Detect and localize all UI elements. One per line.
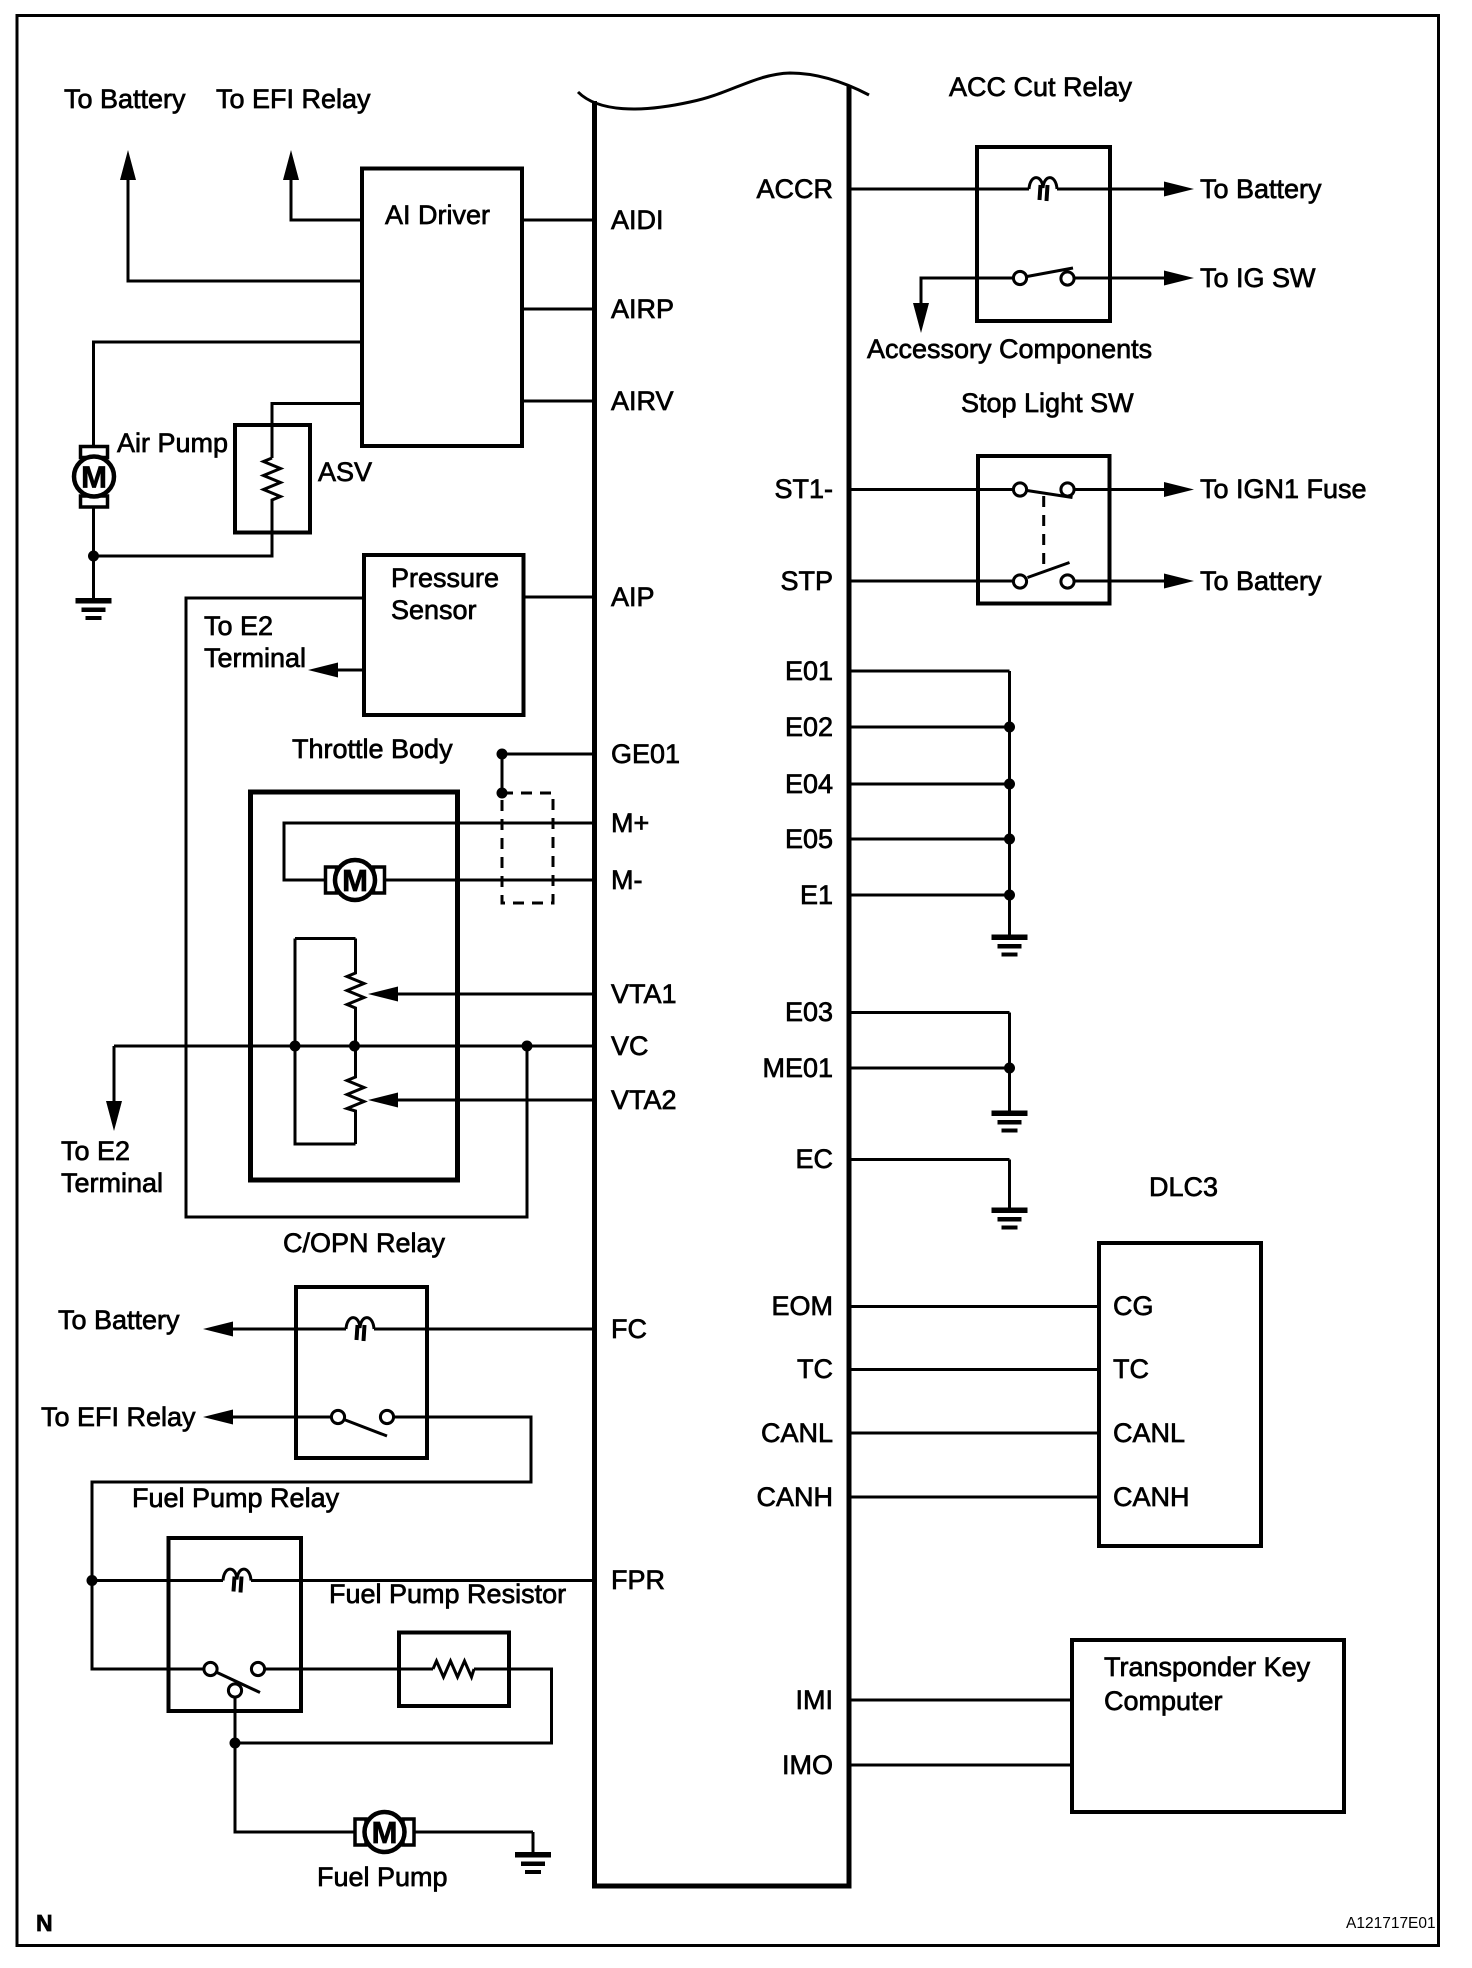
svg-text:To Battery: To Battery (1200, 566, 1322, 596)
dashed noise-suppressor box (502, 793, 553, 903)
svg-text:ASV: ASV (318, 457, 372, 487)
wire EC (852, 1160, 1010, 1210)
svg-text:AIRV: AIRV (611, 386, 674, 416)
svg-text:To EFI Relay: To EFI Relay (216, 84, 371, 114)
relay switch (C/OPN) (331, 1410, 393, 1436)
wire: resistor return with junction dot (230, 1669, 552, 1749)
svg-text:ACCR: ACCR (756, 174, 833, 204)
svg-text:CG: CG (1113, 1291, 1154, 1321)
wire: air pump to ground junction (94, 508, 273, 556)
ground (ME01) (992, 1111, 1028, 1133)
svg-text:To Battery: To Battery (58, 1305, 180, 1335)
wire: AI Driver to EFI relay (291, 178, 362, 220)
wire ACCR (852, 188, 1165, 191)
svg-text:VC: VC (611, 1031, 649, 1061)
svg-text:Fuel Pump: Fuel Pump (317, 1862, 448, 1892)
ground (EC) (992, 1208, 1028, 1230)
svg-text:ST1-: ST1- (774, 474, 833, 504)
arrow/label: To Battery (C/OPN) (58, 1305, 233, 1337)
relay coil (fuel pump) (223, 1569, 251, 1592)
svg-text:E02: E02 (785, 712, 833, 742)
svg-text:FC: FC (611, 1314, 647, 1344)
svg-text:AIDI: AIDI (611, 205, 664, 235)
arrow/label: To EFI Relay (C/OPN) (41, 1402, 331, 1432)
arrow/label: To Battery (ACC) (1164, 174, 1322, 204)
svg-text:To Battery: To Battery (1200, 174, 1322, 204)
DLC3 connector box (1099, 1243, 1261, 1546)
svg-text:Accessory Components: Accessory Components (867, 334, 1152, 364)
stop light switch box (978, 456, 1110, 604)
wire VC with junction dots (114, 1041, 597, 1052)
svg-text:E01: E01 (785, 656, 833, 686)
arrow: to E2 terminal (pressure sensor) (308, 663, 364, 678)
ACC cut relay box (977, 147, 1110, 321)
svg-text:VTA1: VTA1 (611, 979, 677, 1009)
wire STP (852, 580, 1014, 583)
svg-text:TC: TC (797, 1354, 833, 1384)
wire VTA2 with arrow (368, 1093, 597, 1108)
svg-text:Computer: Computer (1104, 1686, 1223, 1716)
throttle motor inner box (251, 792, 458, 1180)
svg-text:Terminal: Terminal (204, 643, 306, 673)
throttle position sensor potentiometer (295, 939, 364, 1145)
ground bus E01-E1 with junction dots (1004, 671, 1015, 936)
arrow/label: To IG SW (1074, 263, 1316, 293)
wire: AI Driver to battery (128, 178, 362, 281)
svg-text:CANL: CANL (1113, 1418, 1185, 1448)
svg-text:IMO: IMO (782, 1750, 833, 1780)
svg-text:Fuel Pump Resistor: Fuel Pump Resistor (329, 1579, 566, 1609)
arrow/label: To IGN1 Fuse (1074, 474, 1367, 504)
svg-text:Fuel Pump Relay: Fuel Pump Relay (132, 1483, 340, 1513)
svg-text:To IGN1 Fuse: To IGN1 Fuse (1200, 474, 1367, 504)
svg-text:Pressure: Pressure (391, 563, 499, 593)
wire FC (232, 1328, 597, 1331)
wire E02 (852, 726, 1010, 729)
svg-text:Terminal: Terminal (61, 1168, 163, 1198)
wire CANH (852, 1496, 1100, 1499)
svg-text:EOM: EOM (771, 1291, 833, 1321)
svg-text:DLC3: DLC3 (1149, 1172, 1218, 1202)
svg-text:AI Driver: AI Driver (385, 200, 490, 230)
fuel pump relay box (169, 1538, 302, 1711)
wire: relay to resistor (265, 1668, 399, 1671)
wire/arrow: accessory components (913, 278, 1013, 333)
svg-text:To E2: To E2 (204, 611, 273, 641)
fuel pump motor (355, 1812, 414, 1852)
wire AIP (524, 596, 597, 599)
AI Driver box (362, 169, 522, 447)
throttle body enclosure box (186, 598, 527, 1217)
wire M- (386, 879, 597, 882)
svg-text:Air Pump: Air Pump (117, 428, 228, 458)
svg-text:Transponder Key: Transponder Key (1104, 1652, 1311, 1682)
wire ME01 with junction dot (852, 1013, 1016, 1113)
svg-text:STP: STP (780, 566, 833, 596)
svg-text:AIRP: AIRP (611, 294, 674, 324)
fuel pump resistor box with resistor (399, 1633, 509, 1707)
wire IMI (852, 1699, 1073, 1702)
svg-text:E03: E03 (785, 997, 833, 1027)
junction dot (air pump / ASV return) (88, 551, 99, 562)
wire IMO (852, 1764, 1073, 1767)
ECM main connector box (592, 85, 852, 1886)
svg-text:E05: E05 (785, 824, 833, 854)
ECM torn-edge wave (578, 73, 869, 109)
transponder key computer box (1072, 1640, 1344, 1812)
svg-text:ME01: ME01 (762, 1053, 833, 1083)
pressure sensor box (364, 555, 524, 715)
svg-text:E04: E04 (785, 769, 833, 799)
svg-text:CANH: CANH (756, 1482, 833, 1512)
relay coil (C/OPN) (346, 1318, 374, 1341)
wire E04 (852, 783, 1010, 786)
svg-text:To IG SW: To IG SW (1200, 263, 1316, 293)
svg-text:M+: M+ (611, 808, 649, 838)
relay switch (ACC) (1013, 268, 1074, 285)
switch upper (stop light) (1013, 483, 1074, 498)
relay coil (ACC) (1029, 178, 1057, 201)
wire AIRP (524, 308, 597, 311)
svg-text:CANH: CANH (1113, 1482, 1190, 1512)
svg-text:GE01: GE01 (611, 739, 680, 769)
wire AIDI (524, 219, 597, 222)
air pump motor (74, 447, 114, 508)
svg-text:To E2: To E2 (61, 1136, 130, 1166)
svg-text:TC: TC (1113, 1354, 1149, 1384)
switch lower (stop light) (1013, 563, 1074, 589)
throttle motor M (326, 860, 385, 900)
svg-text:M-: M- (611, 865, 642, 895)
arrow to EFI relay (283, 150, 299, 180)
C/OPN relay box (296, 1287, 427, 1458)
svg-text:CANL: CANL (761, 1418, 833, 1448)
wire E1 (852, 894, 1010, 897)
wire EOM-CG (852, 1305, 1100, 1308)
svg-text:E1: E1 (800, 880, 833, 910)
svg-text:To Battery: To Battery (64, 84, 186, 114)
wire E05 (852, 838, 1010, 841)
svg-text:A121717E01: A121717E01 (1346, 1915, 1436, 1932)
ground (air pump) (76, 556, 112, 620)
wire M+ (284, 823, 597, 880)
ground (E group) (992, 935, 1028, 957)
relay switch (fuel pump changeover) (204, 1662, 265, 1697)
resistor (ASV) (264, 458, 281, 534)
arrow: to E2 terminal (lower) (106, 1046, 122, 1131)
svg-text:VTA2: VTA2 (611, 1085, 677, 1115)
wire ST1- (852, 488, 1014, 491)
wire E03 (852, 1011, 1010, 1014)
wire CANL (852, 1432, 1100, 1435)
wire: ASV to AI Driver (272, 404, 362, 459)
wire: AI Driver to air pump (94, 342, 363, 447)
svg-text:To EFI Relay: To EFI Relay (41, 1402, 196, 1432)
svg-text:Throttle Body: Throttle Body (292, 734, 453, 764)
wire and ground (fuel pump) (415, 1832, 551, 1874)
ASV valve box (235, 425, 310, 533)
wire FPR with junction dot (87, 1575, 598, 1586)
arrow to battery (120, 150, 136, 180)
svg-text:EC: EC (795, 1144, 833, 1174)
svg-text:IMI: IMI (796, 1685, 834, 1715)
wire: C/OPN switch to fuel pump relay (92, 1417, 531, 1669)
wire: to fuel pump (235, 1743, 354, 1832)
wire AIRV (524, 400, 597, 403)
wire E01 (852, 670, 1010, 673)
svg-text:Sensor: Sensor (391, 595, 477, 625)
svg-text:FPR: FPR (611, 1565, 665, 1595)
svg-text:ACC Cut Relay: ACC Cut Relay (949, 72, 1133, 102)
svg-text:N: N (36, 1910, 53, 1936)
wire GE01 with junction dots (497, 749, 598, 799)
arrow/label: To Battery (stop light) (1074, 566, 1322, 596)
label: To E2 Terminal (lower) (61, 1136, 163, 1198)
pot top wire fix (295, 937, 356, 940)
wire VTA1 with arrow (368, 987, 597, 1002)
svg-text:M: M (81, 460, 107, 495)
svg-text:C/OPN Relay: C/OPN Relay (283, 1228, 446, 1258)
dashed link (stop light switch) (1042, 496, 1045, 568)
wire TC (852, 1368, 1100, 1371)
label: To E2 Terminal (upper) (204, 611, 306, 673)
svg-text:AIP: AIP (611, 582, 655, 612)
svg-text:Stop Light SW: Stop Light SW (961, 388, 1134, 418)
